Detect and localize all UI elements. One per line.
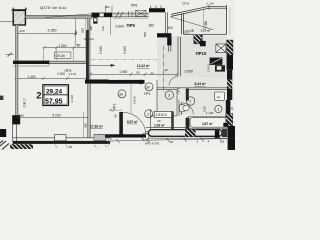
center thick bar top <box>92 13 113 18</box>
sanitary top wall <box>157 88 227 90</box>
hatch segment on band <box>185 129 196 136</box>
left edge dark mark <box>0 96 3 100</box>
bottom wall left double <box>13 135 110 141</box>
left edge black block lower <box>0 129 6 137</box>
corridor wall vertical <box>156 80 158 111</box>
room shading corridor <box>157 77 227 115</box>
hinge blob <box>139 80 143 84</box>
circled 4 <box>142 133 149 140</box>
right faint outer line <box>229 7 231 35</box>
circled 3 <box>165 91 173 99</box>
right black band <box>227 55 233 70</box>
window OP-8p <box>49 61 88 63</box>
dark shaft block 2 <box>215 65 225 71</box>
ext line with 260 <box>75 19 77 45</box>
bottom-left corner diagonals <box>0 141 9 150</box>
lower parallel line <box>13 65 49 67</box>
vent crossed box <box>216 44 226 52</box>
right hatch band <box>227 40 233 55</box>
ticks above bar <box>106 6 112 13</box>
bottom line under band <box>148 137 227 139</box>
WC left wall <box>150 109 152 131</box>
bath tub <box>190 118 230 128</box>
center wall vertical double <box>88 18 90 30</box>
small black square <box>223 123 228 127</box>
bottom thick wall center <box>105 134 146 137</box>
stamp box <box>43 85 69 106</box>
black square door pivot <box>200 41 206 46</box>
dim line 1000/750 <box>43 46 89 49</box>
dim 3500 / 1500 <box>90 73 177 75</box>
hatched block under bay <box>194 35 203 44</box>
wall band from column to center (grey) <box>25 15 91 18</box>
bath door arc <box>182 103 194 115</box>
stub below bar <box>93 17 97 23</box>
dim ticks above column <box>12 7 28 11</box>
bay leader diagonal <box>171 17 214 30</box>
column P1 <box>13 10 25 25</box>
vertical double below bar <box>165 12 167 33</box>
bottom-right corner black <box>228 126 235 150</box>
black block on left wall <box>12 115 20 124</box>
top wall double to window <box>112 13 149 17</box>
left wall lower double <box>16 64 18 115</box>
bay shading <box>171 8 226 34</box>
dark shaft block <box>210 58 223 65</box>
center thick bar mid <box>85 80 109 84</box>
bottom thick line left <box>13 141 111 144</box>
kitchen west wall double <box>178 37 180 77</box>
right wall band y70-100 <box>227 70 232 80</box>
sink box <box>215 92 225 100</box>
dim tick mid-left <box>8 52 12 56</box>
labels circled 3p <box>145 83 153 91</box>
thick L corner <box>157 33 171 37</box>
paper background <box>0 0 235 150</box>
boxed lintel label <box>154 111 172 117</box>
left wall below block <box>13 124 17 141</box>
right wall hatch low <box>226 114 233 128</box>
circled 2 hall <box>145 110 153 118</box>
circled 1 <box>215 105 222 112</box>
dim 360 / 5230 <box>17 116 88 118</box>
bath/wc dividing wall <box>177 90 179 116</box>
bottom wall right double <box>146 128 227 134</box>
dark block right of band <box>222 129 227 137</box>
dim line 1430/1000/170 <box>15 77 89 80</box>
toilet <box>180 105 190 112</box>
bottom dim line <box>110 138 235 141</box>
ticks above <box>151 6 162 9</box>
right wall middle black <box>226 100 231 115</box>
window cross top <box>129 10 147 16</box>
faint beam line <box>91 58 157 60</box>
lintel rounded band <box>149 130 223 137</box>
left wall upper double <box>16 25 18 61</box>
circled 3p second <box>118 90 126 98</box>
WC top wall <box>151 115 178 117</box>
top-right thick bar <box>149 8 165 12</box>
entrance wall dark <box>119 112 123 135</box>
entrance door arc <box>123 112 146 135</box>
circled 2 bath <box>186 97 194 105</box>
leader diagonal on band <box>45 14 92 18</box>
bay outer diagonals <box>171 6 226 34</box>
thick wall west segment <box>13 61 49 64</box>
hatch below left <box>10 144 33 149</box>
wall stub left of column <box>0 20 13 22</box>
hall west wall double <box>88 84 90 138</box>
room shading kitchen <box>157 36 227 77</box>
